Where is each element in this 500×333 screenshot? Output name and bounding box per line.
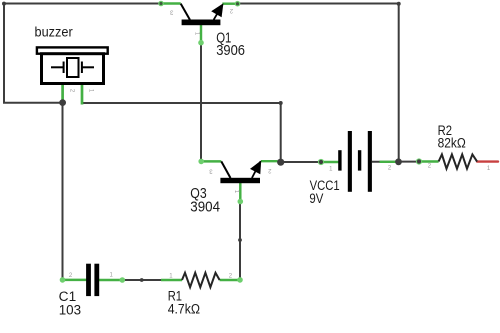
green pin lead: R1 pin2	[220, 279, 240, 281]
green pin lead: buzzer pin1	[81, 84, 84, 105]
svg-text:2: 2	[229, 7, 233, 13]
green endpoint blob at R1 pin2 corner	[237, 277, 243, 283]
wire joint dot	[140, 278, 144, 282]
green endpoint blob at C1 pin1	[120, 277, 126, 283]
svg-text:2: 2	[428, 163, 432, 169]
svg-text:3904: 3904	[190, 198, 220, 215]
green pin lead: C1 pin2	[63, 279, 87, 281]
green endpoint blob at Q1 pin2 wire end	[235, 1, 241, 7]
svg-text:buzzer: buzzer	[35, 24, 73, 40]
resistor R1	[182, 273, 220, 287]
svg-text:82kΩ: 82kΩ	[438, 136, 466, 151]
transistor Q3 (NPN 3904)	[220, 160, 261, 183]
wire: buzzer pin1 across to Q3 pin2 junction	[82, 103, 281, 162]
svg-text:103: 103	[59, 302, 81, 317]
wire: Q3 pin2 junction to battery pin1	[281, 161, 321, 163]
green pin lead: Q3 pin3	[201, 160, 221, 162]
svg-text:4.7kΩ: 4.7kΩ	[168, 301, 200, 316]
svg-text:3: 3	[209, 167, 213, 173]
green pin lead: battery pin2	[380, 161, 396, 163]
green pin lead: Q1 pin2	[222, 2, 237, 4]
svg-text:2: 2	[267, 167, 271, 173]
svg-text:9V: 9V	[309, 191, 323, 206]
svg-text:1: 1	[193, 32, 199, 36]
green pin lead: R2 pin2	[419, 160, 439, 162]
svg-text:2: 2	[388, 166, 392, 172]
green pin lead: Q3 pin1 base	[239, 183, 241, 202]
green pin lead: Q1 pin1 base	[200, 25, 202, 43]
svg-text:1: 1	[87, 89, 93, 93]
wire: C1 pin1 to R1 pin1	[122, 279, 161, 281]
wire joint dot	[238, 238, 242, 242]
svg-text:1: 1	[233, 190, 239, 194]
green endpoint blob at Q3 pin3 corner	[198, 159, 204, 165]
junction dot: Q3 pin2 node	[277, 159, 284, 166]
wire: R1 pin2 up to Q3 base	[239, 202, 241, 280]
svg-text:1: 1	[110, 272, 114, 278]
svg-text:2: 2	[69, 273, 73, 279]
wire: Q1 pin2 across top and down to battery junction	[238, 4, 399, 162]
junction dot: buzzer pin2 node	[59, 99, 66, 106]
transistor Q1 (PNP 3906)	[181, 3, 224, 25]
wire corner dot at (281,103)	[279, 101, 283, 105]
resistor R2	[439, 154, 478, 168]
wire: battery junction to R2 pin2	[399, 161, 419, 163]
red unconnected lead: R2 pin1	[477, 160, 498, 162]
wire corner dot top-left	[2, 2, 6, 6]
wire: battery pin2 dark lead under green	[372, 161, 399, 163]
green pin lead: R1 pin1	[161, 279, 182, 281]
battery VCC1	[338, 131, 372, 192]
green endpoint blob at Q1 pin3 wire end	[158, 1, 164, 7]
wire: buzzer junction down to C1 pin2	[62, 103, 64, 280]
svg-text:1: 1	[329, 167, 333, 173]
green pin lead: Q3 pin2	[261, 160, 278, 162]
svg-text:3906: 3906	[216, 42, 245, 59]
wire corner dot top-right	[397, 2, 401, 6]
svg-text:1: 1	[487, 166, 491, 172]
svg-text:2: 2	[69, 89, 75, 93]
green endpoint blob at Q3 base wire end	[238, 199, 244, 205]
green endpoint blob at C1 pin2 corner	[60, 277, 66, 283]
endpoint dot battery pin1 wire end	[318, 159, 324, 165]
buzzer symbol body	[37, 47, 108, 83]
wire: Q1 pin3 left rail down to buzzer junction	[4, 4, 161, 103]
green endpoint blob at Q1 base wire end	[198, 40, 204, 46]
junction dot: battery pin2 node	[395, 158, 402, 165]
wire: Q1 base down to Q3 pin3 corner	[200, 43, 202, 162]
green pin lead: Q1 pin3	[161, 2, 181, 4]
green pin lead: C1 pin1	[99, 279, 122, 281]
endpoint dot R2 pin2 wire end	[416, 158, 422, 164]
green pin lead: battery pin1	[321, 161, 340, 163]
svg-text:3: 3	[169, 9, 173, 15]
capacitor C1	[86, 264, 99, 296]
green pin lead: buzzer pin2	[61, 84, 64, 103]
